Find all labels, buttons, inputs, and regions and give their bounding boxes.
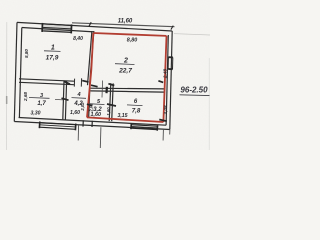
wire: interior wall room2/rooms5-6 bottom line [91,91,165,92]
wire: interior wall room1/room3 bottom line [19,82,74,84]
room 5 fraction line [90,103,104,106]
extension stubs below bottom wall [78,125,170,148]
fraction lines of room labels [29,51,143,106]
wire: right inner wall [166,35,168,125]
tick red bottom right corner [159,120,167,122]
tick rooms3|4 wall [62,98,69,100]
extension line through interior wall [101,81,104,98]
tick junction rooms1|2 / interior wall lower [91,85,98,87]
paper noise overlay [0,0,210,150]
tick junction rooms1|2 / interior wall upper [82,81,88,82]
texts [30,18,140,119]
wire: wall rooms1|2 left line [88,31,92,85]
wire: wall rooms1|2 right line [90,31,94,85]
wire: right outer wall [170,31,172,130]
tick 11,60 line left end [89,22,91,26]
faint line right of building [174,34,210,35]
door dash room3 [55,98,63,101]
window W4 right wall [168,57,173,69]
tick red left / room5 [87,104,92,106]
wire: red right vertical [163,36,166,122]
wire: bottom outer wall [14,122,170,130]
tick bottom wall x83 [82,120,84,126]
room 3 fraction line [29,97,50,100]
door jamb left [73,79,75,87]
wire: red left vertical [87,33,93,117]
room 6 fraction line [127,104,143,107]
window W2 bottom wall left [39,122,75,131]
tick bottom wall x92 [91,121,93,127]
wire: top outer wall [17,22,172,31]
wire: red bottom [87,117,163,122]
wire: bottom inner wall [19,118,167,126]
paper background [0,0,210,150]
wire: wall rooms3|4 right line [65,81,66,119]
wire: top inner wall [22,28,94,32]
tick interior wall door [105,87,108,93]
red outline: inventoried part [87,33,167,122]
vertical dimension texts [23,49,168,116]
door jamb right [80,78,82,86]
dimension ticks [62,22,174,127]
wire: wall rooms5|6 right line [112,83,114,121]
wire: wall rooms4|5 black line below [89,88,90,118]
window W1 top wall [42,23,72,34]
wire: dimension line 11,60 [72,23,175,27]
tick rooms5|6 wall top [108,84,114,86]
tick rooms5|6 wall mid [107,104,116,106]
wire: wall rooms3|4 left line [63,81,64,119]
tick 11,60 line right end [171,26,173,30]
scanner fold line left [5,22,7,150]
room 1 fraction line [44,50,61,53]
scanner edge smudge right [209,58,210,150]
annotation underline [180,94,210,97]
wire: left inner wall [19,28,21,118]
wire: wall rooms5|6 left line [109,83,111,121]
tick red right top junction [158,81,163,83]
wire: interior wall room1/room3 top line [19,79,74,81]
tick rooms3|4 wall top junction [64,81,70,84]
wire: red top (room 2) [93,33,166,36]
window W3 bottom wall right [131,124,158,131]
wire: left outer wall [14,22,17,121]
room 4 fraction line [72,97,87,100]
wire: interior wall room2/rooms5-6 top line [91,87,165,90]
room 2 fraction line [115,63,135,66]
fold line dark blip [6,96,8,104]
